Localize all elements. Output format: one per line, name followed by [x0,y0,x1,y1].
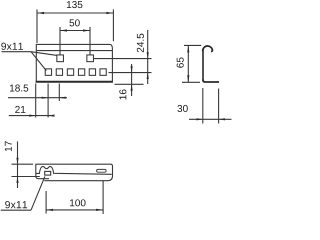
ext lines below front view [36,84,60,118]
upper slot hole U1 [57,55,64,62]
profile bottom flange [203,80,219,83]
bracket front bottom thick edge [36,81,113,83]
hook profile top arc [203,46,213,52]
dim 100 ext lines [46,181,103,214]
leader to upper hole U1 [31,52,57,56]
label underline (front 9x11) [2,51,32,53]
clamp bottom-left rounded corner [36,176,49,179]
dim 17 text [5,141,12,151]
bracket front outline [36,44,112,82]
lower hole row L1..L6 [45,69,106,76]
dim 100 text [70,199,86,206]
dim 30 line [189,118,232,120]
dim 21 [9,115,55,117]
label 9x11 (top view) [5,201,27,208]
dim 24.5 (vertical, right) [147,30,149,84]
dim 30 ext lines [203,88,219,124]
label underline (top view 9x11) [1,209,31,211]
profile vertical web [202,50,204,81]
slot (top view right) [97,169,107,172]
dim 135 text [67,1,83,8]
right ext lines of front view [94,59,152,85]
dim 17 line [17,142,19,189]
dim 50 line [60,27,90,55]
top view outline [36,164,113,181]
dim 135 line [37,9,113,43]
square hole (top view) [45,171,51,175]
dim 50 text [69,19,79,26]
clamp wavy edge + middle fold line [36,166,112,174]
upper slot hole U2 [87,55,94,62]
leader to lower hole L1 [31,52,46,71]
dim 100 line [46,209,103,211]
dim 30 text [177,105,187,112]
dim 65 ext lines [182,45,201,82]
dim 50 arrows [60,29,90,31]
label 9x11 (front) [1,43,23,50]
dim 65 text [177,58,184,68]
dim 135 arrows [37,12,113,14]
dim 18.5 [8,97,67,99]
dim 16 (vertical, right) [131,64,133,96]
dim 65 line [187,45,189,82]
dim 17 ext lines [12,164,40,176]
leader to square hole [31,176,45,210]
